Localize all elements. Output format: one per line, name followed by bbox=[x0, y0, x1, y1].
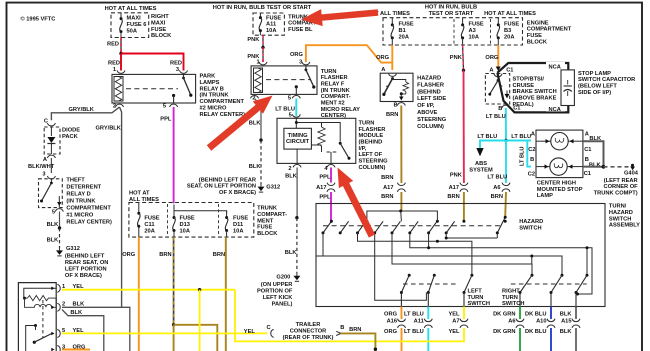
svg-text:PACK: PACK bbox=[62, 134, 79, 140]
wire ORG fuse B3 to brake switch bbox=[497, 45, 499, 69]
svg-text:C1: C1 bbox=[584, 147, 591, 153]
svg-text:COMPARTMENT: COMPARTMENT bbox=[200, 99, 245, 105]
hazard switch contacts bbox=[323, 221, 331, 233]
svg-text:BLOCK: BLOCK bbox=[151, 33, 172, 39]
svg-text:RELAY B: RELAY B bbox=[200, 86, 224, 92]
svg-text:HOT AT: HOT AT bbox=[129, 191, 150, 197]
svg-text:GRY/BLK: GRY/BLK bbox=[96, 126, 122, 132]
dashed actuation line park relay bbox=[126, 88, 178, 90]
svg-text:PPL: PPL bbox=[319, 174, 331, 180]
wire BRN into hazard switch col1 bbox=[400, 192, 402, 211]
svg-text:RED: RED bbox=[107, 42, 119, 48]
pin 5 flasher bbox=[51, 332, 54, 336]
ABS system arrow bbox=[476, 148, 483, 156]
wire BRN dashed fuse D13 down bbox=[173, 237, 175, 325]
svg-text:REAR SEAT, ON: REAR SEAT, ON bbox=[65, 260, 109, 266]
svg-text:A11: A11 bbox=[414, 318, 424, 324]
svg-text:A17: A17 bbox=[449, 185, 459, 191]
node junction BRN bbox=[374, 348, 377, 351]
wire BLK dashed to G312 middle bbox=[260, 140, 262, 185]
svg-text:A15: A15 bbox=[561, 318, 571, 324]
svg-text:RED: RED bbox=[108, 61, 120, 67]
svg-text:DK BLU: DK BLU bbox=[525, 311, 546, 317]
svg-text:BRN: BRN bbox=[159, 252, 171, 258]
hazard switch gang dashed line bbox=[323, 225, 504, 227]
wire YEL vertical down bbox=[199, 290, 201, 351]
svg-text:RELAY CENTER): RELAY CENTER) bbox=[66, 220, 112, 226]
fuse D13 10A bbox=[173, 211, 175, 218]
svg-text:B: B bbox=[530, 157, 534, 163]
wire BLK dashed to G404 bbox=[604, 166, 631, 168]
ground G404 bbox=[631, 164, 634, 167]
turn hazard switch assembly box bbox=[316, 204, 605, 307]
combination flasher box bottom-left bbox=[18, 283, 56, 351]
svg-text:HAZARD: HAZARD bbox=[609, 210, 633, 216]
ground G312 middle bbox=[260, 185, 262, 187]
svg-text:G404: G404 bbox=[624, 171, 639, 177]
wire ORG fuse B1 to hazard flasher bbox=[391, 45, 393, 70]
svg-text:(BEHIND LEFT REAR: (BEHIND LEFT REAR bbox=[199, 177, 256, 183]
module coil bbox=[318, 127, 325, 146]
svg-text:LAMPS: LAMPS bbox=[200, 80, 220, 86]
svg-text:ORG: ORG bbox=[384, 329, 398, 335]
wire ORG col A16 bbox=[400, 307, 402, 320]
fuse A3 10A bbox=[462, 18, 464, 25]
theft relay switch blade bbox=[50, 179, 52, 183]
wire YEL pin 1 bbox=[62, 289, 235, 291]
svg-text:PARK: PARK bbox=[200, 74, 217, 80]
svg-text:BRN: BRN bbox=[381, 175, 393, 181]
svg-text:BLK: BLK bbox=[285, 250, 298, 256]
stop lamp switch capacitor box bbox=[561, 70, 574, 106]
svg-text:RELAY CENTER): RELAY CENTER) bbox=[200, 112, 246, 118]
svg-text:BRAKE SWITCH: BRAKE SWITCH bbox=[513, 89, 557, 95]
svg-text:10A: 10A bbox=[180, 228, 190, 234]
right turn switch contacts bbox=[531, 274, 534, 277]
wire PNK dashed fuse A3 bbox=[462, 45, 465, 70]
node junction RED bbox=[119, 52, 122, 55]
wire BRN branch right bbox=[174, 325, 218, 351]
capacitor symbol bbox=[567, 80, 569, 85]
svg-text:FUSE: FUSE bbox=[399, 22, 414, 28]
wire LT BLU to stop lamp pin B bbox=[527, 141, 531, 167]
svg-text:BRN: BRN bbox=[491, 194, 503, 200]
node junction LT BLU bbox=[504, 139, 507, 142]
svg-text:YEL: YEL bbox=[448, 329, 460, 335]
svg-text:THEFT: THEFT bbox=[66, 178, 85, 184]
svg-text:MOUNTED STOP: MOUNTED STOP bbox=[537, 187, 583, 193]
svg-text:(IN TRUNK: (IN TRUNK bbox=[200, 93, 230, 99]
svg-text:PPL: PPL bbox=[319, 195, 331, 201]
hazard flasher internals bbox=[389, 74, 397, 77]
wire PPL from pin 5 bbox=[173, 107, 175, 203]
svg-text:50A: 50A bbox=[127, 28, 137, 34]
wire PNK to turn flasher relay pin 1 bbox=[262, 47, 264, 61]
svg-text:ABOVE: ABOVE bbox=[417, 110, 437, 116]
svg-text:BLOCK: BLOCK bbox=[527, 40, 548, 46]
svg-text:LEFT: LEFT bbox=[468, 289, 483, 295]
svg-text:OF I/P,: OF I/P, bbox=[417, 103, 435, 109]
svg-text:TIMING: TIMING bbox=[288, 133, 308, 139]
wire PNK down to connector A17 bbox=[463, 70, 465, 183]
svg-text:G312: G312 bbox=[66, 246, 80, 252]
svg-text:BLK: BLK bbox=[73, 301, 86, 307]
svg-text:GRY/BLK: GRY/BLK bbox=[69, 107, 95, 113]
right maxi fuse block box bbox=[111, 13, 149, 38]
svg-text:LT BLU: LT BLU bbox=[511, 134, 531, 140]
svg-text:PNK: PNK bbox=[450, 173, 463, 179]
svg-text:STEERING: STEERING bbox=[359, 159, 389, 165]
svg-text:COLUMN): COLUMN) bbox=[417, 124, 444, 130]
module internal wiring bbox=[295, 118, 297, 128]
svg-text:#1 MICRO: #1 MICRO bbox=[66, 213, 93, 219]
wire BRN solid below junction bbox=[173, 325, 175, 351]
wire YEL pin 5 to trailer bbox=[62, 332, 267, 334]
svg-text:LEFT KICK: LEFT KICK bbox=[263, 295, 294, 301]
svg-text:FUSE: FUSE bbox=[233, 216, 248, 222]
svg-text:B: B bbox=[498, 106, 502, 112]
svg-text:5: 5 bbox=[289, 112, 292, 118]
pin 2 flasher bbox=[51, 306, 54, 310]
svg-text:(BEHIND LEFT: (BEHIND LEFT bbox=[65, 254, 105, 260]
svg-text:A10: A10 bbox=[536, 318, 546, 324]
svg-text:COMPARTMENT: COMPARTMENT bbox=[527, 27, 572, 33]
svg-text:BLK: BLK bbox=[249, 120, 262, 126]
svg-text:LEFT SIDE: LEFT SIDE bbox=[417, 96, 446, 102]
svg-text:A6: A6 bbox=[508, 318, 515, 324]
svg-text:3: 3 bbox=[42, 172, 45, 178]
hazard flasher box bbox=[380, 73, 413, 101]
svg-text:TURN/: TURN/ bbox=[609, 204, 627, 210]
ground G200 bbox=[296, 274, 298, 276]
svg-text:A: A bbox=[43, 157, 47, 163]
svg-text:STEERING: STEERING bbox=[417, 117, 447, 123]
node junction BLK relay pin2 bbox=[259, 138, 262, 141]
wire BLK module pin 2 to G200 bbox=[296, 168, 298, 218]
svg-text:D11: D11 bbox=[233, 222, 243, 228]
svg-text:TEST OR START: TEST OR START bbox=[429, 11, 474, 17]
fuse block dividers bottom bbox=[167, 204, 169, 236]
flasher internal coil bbox=[25, 298, 57, 307]
svg-text:5: 5 bbox=[163, 104, 166, 110]
svg-text:10A: 10A bbox=[266, 28, 276, 34]
svg-text:20A: 20A bbox=[399, 34, 409, 40]
svg-text:COLUMN): COLUMN) bbox=[359, 165, 386, 171]
wire ORG fuse C11 down bbox=[138, 237, 140, 351]
svg-text:BLOCK: BLOCK bbox=[257, 231, 278, 237]
stop lamp bulb B bbox=[550, 158, 567, 175]
svg-text:MICRO RELAY: MICRO RELAY bbox=[321, 107, 360, 113]
svg-text:YEL: YEL bbox=[244, 329, 256, 335]
svg-text:ORG: ORG bbox=[122, 252, 136, 258]
svg-text:LT BLU: LT BLU bbox=[275, 107, 295, 113]
svg-text:CENTER HIGH: CENTER HIGH bbox=[537, 181, 576, 187]
wire LT BLU to stop lamp pin A bbox=[506, 140, 531, 142]
svg-text:C1: C1 bbox=[584, 171, 591, 177]
flasher internal gang dashed bbox=[42, 300, 44, 338]
svg-text:LT BLU: LT BLU bbox=[404, 311, 424, 317]
right turn switch gang dashed bbox=[511, 283, 587, 285]
wire LT BLU brake switch down bbox=[505, 108, 507, 141]
flasher internal switch blade bbox=[33, 341, 36, 344]
svg-text:FLASHER: FLASHER bbox=[359, 127, 386, 133]
diode symbol bbox=[50, 127, 52, 136]
turn flasher relay F box bbox=[251, 66, 317, 95]
svg-text:A: A bbox=[489, 68, 493, 74]
svg-text:SWITCH: SWITCH bbox=[609, 216, 631, 222]
svg-text:B1: B1 bbox=[399, 28, 406, 34]
svg-text:G312: G312 bbox=[266, 185, 280, 191]
wire RED to park relay pin 1 bbox=[120, 54, 122, 69]
svg-text:RIGHT: RIGHT bbox=[502, 289, 520, 295]
wire BRN fuse D11 down bbox=[225, 237, 227, 351]
relay coil park relay bbox=[114, 77, 123, 102]
wire BLK from relay pin 2 bbox=[255, 99, 262, 141]
node junction BRN dashed bbox=[172, 323, 175, 326]
wire PPL to hazard switch bbox=[330, 192, 332, 221]
svg-text:HOT IN RUN, BULB TEST OR START: HOT IN RUN, BULB TEST OR START bbox=[213, 5, 312, 11]
svg-text:FUSE: FUSE bbox=[266, 15, 281, 21]
svg-text:MAXI: MAXI bbox=[151, 20, 166, 26]
fuse A11 box bbox=[253, 13, 284, 35]
wire PNK dashed from fuse A11 bbox=[262, 35, 264, 47]
svg-text:A: A bbox=[531, 132, 535, 138]
svg-text:TRUNK: TRUNK bbox=[257, 206, 278, 212]
svg-text:SEAT, ON LEFT PORTION: SEAT, ON LEFT PORTION bbox=[187, 184, 256, 190]
svg-text:MAXI: MAXI bbox=[127, 16, 142, 22]
svg-text:PEDAL): PEDAL) bbox=[513, 102, 534, 108]
svg-text:(BEHIND: (BEHIND bbox=[417, 89, 441, 95]
svg-text:TURN: TURN bbox=[321, 69, 337, 75]
svg-text:RELAY D: RELAY D bbox=[66, 192, 90, 198]
diode pack box bbox=[44, 127, 60, 154]
wire GRY/BLK from pin 2 to diode pack bbox=[51, 107, 119, 120]
svg-text:LT BLU: LT BLU bbox=[520, 147, 526, 166]
svg-text:B: B bbox=[340, 325, 344, 331]
wire BRN into hazard switch col2 bbox=[463, 192, 465, 221]
wire DK BLU col A10 bbox=[550, 307, 552, 320]
svg-text:A: A bbox=[381, 67, 385, 73]
svg-text:10A: 10A bbox=[233, 228, 243, 234]
left turn switch gang dashed bbox=[403, 283, 458, 285]
svg-text:RIGHT: RIGHT bbox=[151, 14, 169, 20]
turn flasher module box bbox=[277, 118, 356, 163]
brake switch box bbox=[485, 74, 509, 105]
fuse MAXI FUSE 6 50A bbox=[120, 13, 122, 19]
svg-text:(BELOW LEFT: (BELOW LEFT bbox=[578, 84, 617, 90]
svg-text:#2 MICRO: #2 MICRO bbox=[200, 106, 227, 112]
fuse C11 20A bbox=[138, 203, 140, 214]
svg-text:BRN: BRN bbox=[213, 252, 225, 258]
NCA label top bbox=[546, 62, 565, 70]
wire BRN into hazard switch col3 bbox=[504, 192, 507, 217]
svg-text:BLK: BLK bbox=[560, 329, 573, 335]
wire BLK stop lamp pin B bbox=[583, 166, 604, 168]
node junction YEL bbox=[198, 288, 201, 291]
wire PPL module pin 4 bbox=[330, 168, 332, 183]
svg-text:A16: A16 bbox=[387, 318, 397, 324]
svg-text:2: 2 bbox=[62, 301, 65, 307]
svg-text:TURN: TURN bbox=[359, 121, 375, 127]
svg-text:MENT #2: MENT #2 bbox=[321, 101, 345, 107]
wire BLK theft relay to ground bbox=[59, 212, 61, 228]
svg-text:BLK: BLK bbox=[47, 222, 60, 228]
switch blade turn flasher relay bbox=[305, 68, 308, 71]
hazard switch top loop bbox=[367, 211, 438, 221]
svg-text:3: 3 bbox=[176, 67, 179, 73]
svg-text:ORG: ORG bbox=[485, 55, 499, 61]
svg-text:2: 2 bbox=[288, 166, 291, 172]
svg-text:20A: 20A bbox=[144, 228, 154, 234]
wire ORG to pin 3 bbox=[306, 45, 392, 62]
svg-text:CORNER OF: CORNER OF bbox=[603, 184, 638, 190]
svg-text:COMPART-: COMPART- bbox=[321, 94, 351, 100]
svg-text:YEL: YEL bbox=[448, 311, 460, 317]
flasher internal resistor bbox=[25, 296, 52, 301]
svg-text:HOT AT ALL TIMES: HOT AT ALL TIMES bbox=[105, 6, 157, 12]
svg-text:ABS: ABS bbox=[475, 161, 487, 167]
engine compartment fuse block box bbox=[383, 18, 523, 45]
svg-text:C2: C2 bbox=[528, 147, 535, 153]
svg-text:A: A bbox=[585, 132, 589, 138]
svg-text:A11: A11 bbox=[266, 22, 276, 28]
wire LT BLU down to connector A6 bbox=[505, 141, 507, 184]
svg-text:1: 1 bbox=[113, 67, 116, 73]
svg-text:LT BLU: LT BLU bbox=[404, 329, 424, 335]
svg-text:5: 5 bbox=[288, 96, 291, 102]
svg-text:HAZARD: HAZARD bbox=[417, 76, 441, 82]
svg-text:(IN TRUNK: (IN TRUNK bbox=[66, 199, 96, 205]
svg-text:I/P,: I/P, bbox=[359, 146, 367, 152]
switch blade park relay bbox=[182, 77, 185, 80]
svg-text:TRUNK COMPT): TRUNK COMPT) bbox=[594, 191, 638, 197]
wire GRY/BLK long vertical bbox=[120, 107, 122, 307]
svg-text:D13: D13 bbox=[180, 222, 190, 228]
wire RED dashed from maxi fuse bbox=[120, 38, 122, 54]
wire BLK dashed to G200 bbox=[296, 218, 298, 274]
annotation arrow 2 bbox=[207, 96, 273, 151]
svg-text:DK GRN: DK GRN bbox=[493, 329, 515, 335]
svg-text:(ABOVE BRAKE: (ABOVE BRAKE bbox=[513, 96, 557, 102]
svg-text:C2: C2 bbox=[528, 172, 535, 178]
svg-text:SWITCH: SWITCH bbox=[519, 225, 541, 231]
wire YEL col A7 bbox=[463, 307, 465, 320]
svg-text:PNK: PNK bbox=[247, 37, 260, 43]
svg-text:FUSE: FUSE bbox=[504, 22, 519, 28]
svg-text:(LEFT REAR: (LEFT REAR bbox=[604, 178, 638, 184]
svg-text:FUSE: FUSE bbox=[257, 225, 272, 231]
svg-text:HOT IN RUN, BULB: HOT IN RUN, BULB bbox=[425, 4, 477, 10]
svg-text:FLASHER: FLASHER bbox=[417, 82, 444, 88]
svg-text:G200: G200 bbox=[276, 274, 290, 280]
left turn switch contacts bbox=[408, 274, 411, 277]
fuse D11 10A bbox=[226, 211, 228, 218]
svg-text:TURN: TURN bbox=[468, 295, 484, 301]
svg-text:MENT: MENT bbox=[257, 218, 274, 224]
svg-text:A7: A7 bbox=[452, 318, 459, 324]
svg-text:SIDE OF I/P): SIDE OF I/P) bbox=[578, 90, 611, 96]
svg-text:BRN: BRN bbox=[381, 194, 393, 200]
wire LT BLU col A11 bbox=[427, 307, 429, 320]
wire BLK col A15 bbox=[575, 307, 577, 320]
svg-text:LEFT OF: LEFT OF bbox=[359, 152, 383, 158]
svg-text:MODULE: MODULE bbox=[359, 133, 384, 139]
wire BLK stop lamp pin A bbox=[583, 141, 604, 167]
svg-text:SWITCH CAPACITOR: SWITCH CAPACITOR bbox=[578, 77, 635, 83]
svg-text:DK GRN: DK GRN bbox=[493, 311, 515, 317]
svg-text:ORG: ORG bbox=[290, 52, 304, 58]
svg-text:BLK: BLK bbox=[285, 174, 298, 180]
dashed actuation line turn flasher relay bbox=[266, 79, 310, 81]
svg-text:FLASHER: FLASHER bbox=[321, 75, 348, 81]
svg-text:(REAR OF TRUNK): (REAR OF TRUNK) bbox=[283, 335, 334, 341]
NCA callout outline bbox=[497, 63, 568, 112]
wire ORG pin 3 bbox=[62, 349, 90, 351]
center high mounted stop lamp box bbox=[536, 130, 583, 178]
svg-text:A17: A17 bbox=[383, 185, 393, 191]
svg-text:HAZARD: HAZARD bbox=[519, 219, 543, 225]
svg-text:SWITCH: SWITCH bbox=[502, 301, 524, 307]
svg-text:10A: 10A bbox=[469, 34, 479, 40]
wire BLK pin 2 bbox=[62, 307, 130, 351]
wire BLK/WHT bbox=[50, 158, 52, 173]
svg-text:NCA: NCA bbox=[549, 107, 561, 113]
svg-text:BLK: BLK bbox=[560, 311, 573, 317]
relay coil turn flasher relay bbox=[254, 68, 263, 93]
svg-text:BLK: BLK bbox=[249, 164, 262, 170]
svg-text:HOT AT ALL TIMES: HOT AT ALL TIMES bbox=[484, 11, 536, 17]
timing circuit box bbox=[284, 128, 312, 149]
stop lamp bulb A bbox=[551, 133, 568, 150]
svg-text:ORG: ORG bbox=[384, 311, 398, 317]
svg-text:STOP LAMP: STOP LAMP bbox=[578, 71, 611, 77]
flasher internal lower wire bbox=[26, 326, 36, 351]
node junction PNK bbox=[261, 46, 264, 49]
svg-text:A17: A17 bbox=[316, 185, 326, 191]
node junction BLK bbox=[58, 226, 61, 229]
svg-text:RELAY F: RELAY F bbox=[321, 82, 345, 88]
wire BLK dashed to G312 bbox=[59, 228, 61, 248]
svg-text:FUSE BL: FUSE BL bbox=[288, 27, 313, 33]
svg-text:CRUISE: CRUISE bbox=[513, 83, 535, 89]
wire BLK pin 2 second bbox=[62, 310, 104, 351]
flasher internal pin1 wire bbox=[24, 288, 56, 298]
hazard switch interconnect buses bbox=[316, 233, 323, 256]
svg-text:CIRCUIT: CIRCUIT bbox=[286, 139, 310, 145]
svg-text:LEFT PORTION: LEFT PORTION bbox=[65, 267, 107, 273]
svg-text:(IN TRUNK: (IN TRUNK bbox=[321, 88, 351, 94]
svg-text:FUSE: FUSE bbox=[469, 22, 484, 28]
module switch blade bbox=[339, 142, 342, 145]
svg-text:OF X BRACE): OF X BRACE) bbox=[65, 273, 102, 279]
internal feed line D13-D11 bbox=[174, 205, 227, 214]
trunk compartment fuse block box bbox=[129, 203, 254, 238]
wire LT BLU relay pin5 to module bbox=[295, 99, 297, 117]
annotation arrow 3 bbox=[338, 168, 376, 238]
wire BRN trailer bbox=[341, 333, 376, 351]
svg-text:(BEHIND: (BEHIND bbox=[359, 140, 383, 146]
svg-text:FUSE: FUSE bbox=[144, 216, 159, 222]
svg-text:LT BLU: LT BLU bbox=[477, 134, 497, 140]
node junction PNK fuse A3 bbox=[462, 69, 465, 72]
svg-text:FUSE 6: FUSE 6 bbox=[127, 22, 147, 28]
wire BRN hazard flasher to A17 bbox=[400, 106, 402, 184]
svg-text:LAMP: LAMP bbox=[537, 193, 553, 199]
svg-text:BLK: BLK bbox=[47, 238, 60, 244]
svg-text:PORTION OF: PORTION OF bbox=[257, 289, 293, 295]
fuse block dividers bbox=[453, 19, 455, 44]
ground G312 left bbox=[59, 248, 61, 250]
